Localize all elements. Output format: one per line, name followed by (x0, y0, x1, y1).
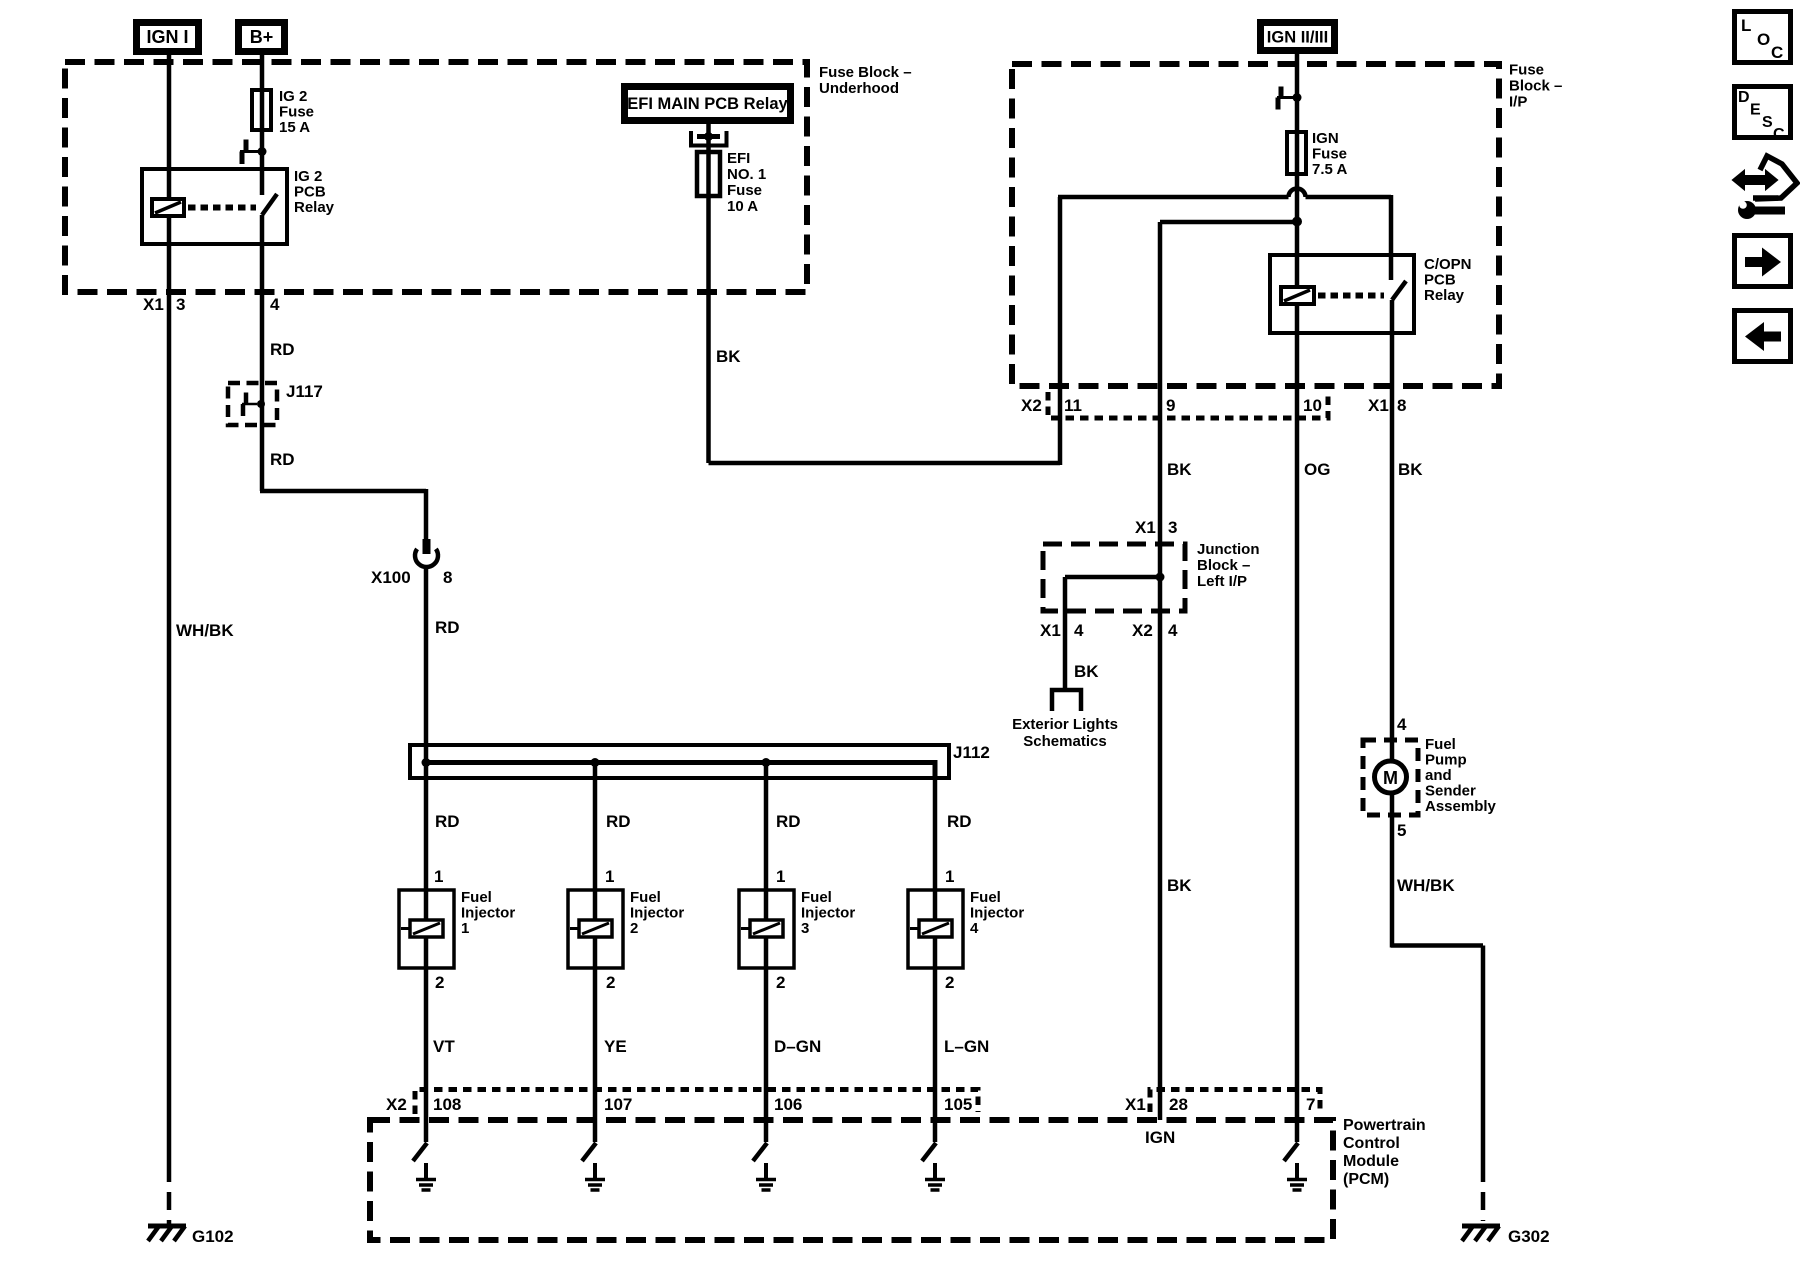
injector 3 box (739, 890, 794, 968)
svg-text:5: 5 (1397, 821, 1406, 840)
svg-text:X2: X2 (386, 1095, 407, 1114)
svg-text:PCB: PCB (1424, 272, 1456, 289)
svg-text:2: 2 (776, 973, 785, 992)
injector 4 box (908, 890, 963, 968)
svg-text:IGN: IGN (1145, 1128, 1175, 1147)
fuse clip below EFI MAIN PCB Relay (691, 131, 727, 146)
svg-text:WH/BK: WH/BK (176, 621, 234, 640)
connector hook at IGN fuse top (1279, 87, 1284, 99)
svg-text:3: 3 (1168, 518, 1177, 537)
motor M circle (1375, 761, 1407, 793)
svg-text:(PCM): (PCM) (1343, 1171, 1389, 1188)
svg-text:1: 1 (461, 920, 469, 937)
svg-text:X2: X2 (1132, 621, 1153, 640)
svg-text:J117: J117 (286, 382, 323, 401)
svg-text:G102: G102 (192, 1227, 234, 1246)
svg-text:OG: OG (1304, 460, 1330, 479)
svg-text:RD: RD (606, 812, 631, 831)
svg-text:Fuse: Fuse (727, 182, 762, 199)
svg-text:106: 106 (774, 1095, 802, 1114)
svg-text:Fuel: Fuel (801, 889, 832, 906)
svg-text:Fuel: Fuel (1425, 736, 1456, 753)
wire BK horizontal y=463 (709, 461, 1061, 466)
svg-text:Fuel: Fuel (461, 889, 492, 906)
ground pin7 (1287, 1163, 1307, 1190)
node J112 dot 3 (762, 758, 771, 767)
svg-text:IGN I: IGN I (146, 27, 188, 47)
svg-text:4: 4 (270, 295, 280, 314)
svg-text:Schematics: Schematics (1023, 733, 1106, 750)
wire injector2 drop x=595 (593, 762, 598, 1142)
svg-text:3: 3 (176, 295, 185, 314)
wire BK pin9 branch y=222 (1160, 220, 1297, 225)
svg-text:1: 1 (945, 867, 954, 886)
fuse IGN 7.5A (1287, 132, 1306, 174)
relay C/OPN dashed link (1318, 293, 1384, 299)
svg-text:8: 8 (1397, 396, 1406, 415)
svg-text:BK: BK (1167, 876, 1192, 895)
wire pin11 vertical x=1060 (1058, 197, 1063, 465)
node J112 dot 1 (422, 758, 431, 767)
svg-text:Fuel: Fuel (630, 889, 661, 906)
svg-text:Pump: Pump (1425, 752, 1467, 769)
svg-text:D: D (1738, 89, 1750, 106)
svg-text:Relay: Relay (294, 199, 335, 216)
svg-text:Fuse: Fuse (1509, 62, 1544, 79)
svg-text:1: 1 (605, 867, 614, 886)
svg-text:G302: G302 (1508, 1227, 1550, 1246)
icon back arrow box (1735, 311, 1791, 362)
svg-text:4: 4 (970, 920, 979, 937)
splice J117 dashed box (228, 383, 277, 425)
svg-text:C/OPN: C/OPN (1424, 256, 1472, 273)
relay C/OPN coil (1281, 287, 1314, 304)
wire BK pin9 vertical x=1160 (1158, 222, 1163, 1120)
svg-text:105: 105 (944, 1095, 972, 1114)
injector 1 box (399, 890, 454, 968)
svg-text:and: and (1425, 767, 1452, 784)
svg-text:2: 2 (945, 973, 954, 992)
injector 2 box (568, 890, 623, 968)
svg-text:108: 108 (433, 1095, 461, 1114)
svg-text:RD: RD (435, 812, 460, 831)
svg-text:1: 1 (776, 867, 785, 886)
svg-text:BK: BK (716, 347, 741, 366)
wire J112 bus internal bar (424, 760, 935, 765)
icon LOC box (1735, 12, 1791, 63)
svg-text:BK: BK (1398, 460, 1423, 479)
wire dashed segment to G302 (1481, 1164, 1486, 1221)
wire injector3 drop x=766 (764, 762, 769, 1142)
svg-text:7: 7 (1306, 1095, 1315, 1114)
svg-text:Underhood: Underhood (819, 80, 899, 97)
ground injector3 (756, 1163, 776, 1190)
svg-text:IG 2: IG 2 (294, 168, 322, 185)
ground injector1 (416, 1163, 436, 1190)
svg-text:Block –: Block – (1197, 557, 1250, 574)
connector X100 male pin (423, 539, 431, 554)
svg-text:3: 3 (801, 920, 809, 937)
icon jump arrows with wrench (1733, 156, 1797, 219)
node IGN fuse terminal dot (1293, 93, 1302, 102)
svg-text:Injector: Injector (970, 905, 1024, 922)
svg-text:Fuse: Fuse (279, 104, 314, 121)
ground G102 (148, 1226, 186, 1241)
svg-text:RD: RD (270, 450, 295, 469)
svg-text:PCB: PCB (294, 184, 326, 201)
svg-text:BK: BK (1167, 460, 1192, 479)
svg-text:YE: YE (604, 1037, 627, 1056)
svg-text:Block –: Block – (1509, 78, 1562, 95)
wire IGN I feed (WH/BK) x=169 (167, 55, 172, 1164)
ground G302 (1462, 1226, 1500, 1241)
svg-text:RD: RD (776, 812, 801, 831)
fuse IG 2 15A (252, 90, 271, 130)
svg-text:Left I/P: Left I/P (1197, 573, 1247, 590)
svg-text:28: 28 (1169, 1095, 1188, 1114)
splice J117 hook (244, 393, 249, 405)
node junction block dot (1156, 573, 1165, 582)
ground injector2 (585, 1163, 605, 1190)
svg-text:Sender: Sender (1425, 783, 1476, 800)
svg-text:C: C (1771, 43, 1783, 62)
wire PCM pin7 internal x=1297 (1295, 1120, 1300, 1142)
icon DESC box (1735, 87, 1791, 144)
power tag B+ (239, 23, 285, 52)
transistor switch pin7 (1284, 1143, 1298, 1161)
wire relay switch feed x=1391 (1391, 195, 1392, 948)
svg-text:9: 9 (1166, 396, 1175, 415)
wire junction block internal y=577 (1065, 575, 1160, 580)
junction block dashed box (1043, 544, 1185, 611)
PCM dashed box (370, 1120, 1333, 1240)
svg-text:B+: B+ (250, 27, 274, 47)
svg-text:Injector: Injector (630, 905, 684, 922)
svg-text:Relay: Relay (1424, 287, 1465, 304)
svg-text:8: 8 (443, 568, 452, 587)
svg-text:Powertrain: Powertrain (1343, 1117, 1426, 1134)
svg-text:NO. 1: NO. 1 (727, 166, 766, 183)
svg-text:RD: RD (947, 812, 972, 831)
node B+ fuse terminal dot (258, 147, 267, 156)
svg-text:4: 4 (1168, 621, 1178, 640)
icon forward arrow box (1735, 236, 1791, 287)
wire IGN I dashed segment to G102 (167, 1164, 172, 1224)
svg-text:X2: X2 (1021, 396, 1042, 415)
svg-text:L: L (1741, 16, 1751, 35)
connector hook at IG 2 fuse bottom (244, 140, 249, 153)
svg-text:I/P: I/P (1509, 94, 1527, 111)
svg-text:L–GN: L–GN (944, 1037, 989, 1056)
svg-text:RD: RD (435, 618, 460, 637)
svg-text:Junction: Junction (1197, 541, 1260, 558)
relay IG2 coil (152, 199, 184, 216)
power tag IGN I (137, 23, 199, 52)
svg-text:X1: X1 (143, 295, 164, 314)
svg-text:2: 2 (435, 973, 444, 992)
svg-text:Fuse: Fuse (1312, 146, 1347, 163)
svg-text:2: 2 (606, 973, 615, 992)
wire EFI BK x=708.5 (706, 124, 711, 463)
svg-text:O: O (1757, 30, 1770, 49)
fuse EFI NO.1 10A (697, 152, 720, 196)
svg-text:VT: VT (433, 1037, 455, 1056)
relay C/OPN box (1270, 255, 1414, 333)
exterior lights bracket (1052, 690, 1081, 711)
node BK branch dot (1292, 217, 1302, 227)
svg-text:IG 2: IG 2 (279, 88, 307, 105)
connector X100 female cup (415, 549, 438, 567)
wire WH/BK pump to G302 (1391, 946, 1483, 1165)
bus J112 box (410, 745, 949, 778)
fuse block I/P dashed box (1012, 64, 1499, 386)
svg-text:Module: Module (1343, 1153, 1399, 1170)
svg-text:X1: X1 (1040, 621, 1061, 640)
svg-text:M: M (1383, 768, 1398, 788)
svg-text:E: E (1750, 102, 1761, 119)
wire IGN II/III x=1297 (1295, 54, 1300, 1120)
svg-text:X1: X1 (1125, 1095, 1146, 1114)
svg-text:IGN: IGN (1312, 130, 1339, 147)
wire injector4 drop x=935 (933, 760, 938, 778)
component tag EFI MAIN PCB Relay (625, 87, 791, 121)
svg-text:107: 107 (604, 1095, 632, 1114)
svg-text:S: S (1762, 114, 1773, 131)
svg-text:Injector: Injector (461, 905, 515, 922)
svg-text:D–GN: D–GN (774, 1037, 821, 1056)
wire RD horizontal turn to X100 (260, 489, 426, 540)
svg-text:J112: J112 (953, 743, 990, 762)
pin bracket PCM X1 (1150, 1090, 1320, 1113)
node J117 dot (257, 400, 265, 408)
svg-text:15 A: 15 A (279, 119, 310, 136)
fuse block underhood dashed box (65, 62, 807, 292)
svg-text:Fuel: Fuel (970, 889, 1001, 906)
wire horizontal y=197 with hop over x=1297 (1058, 189, 1391, 198)
transistor switch injector2 (582, 1143, 596, 1161)
svg-text:X1: X1 (1135, 518, 1156, 537)
transistor switch injector3 (753, 1143, 767, 1161)
svg-text:RD: RD (270, 340, 295, 359)
svg-text:4: 4 (1074, 621, 1084, 640)
svg-text:Exterior Lights: Exterior Lights (1012, 716, 1118, 733)
fuel pump dashed box (1363, 740, 1418, 815)
relay IG2 box (142, 169, 287, 244)
svg-text:Control: Control (1343, 1135, 1400, 1152)
relay IG2 switch blade (262, 194, 277, 215)
svg-text:EFI: EFI (727, 150, 750, 167)
svg-text:7.5 A: 7.5 A (1312, 161, 1347, 178)
svg-text:Injector: Injector (801, 905, 855, 922)
svg-text:IGN II/III: IGN II/III (1267, 29, 1328, 47)
svg-text:BK: BK (1074, 662, 1099, 681)
relay IG2 dashed link (188, 205, 256, 211)
svg-text:Fuse Block –: Fuse Block – (819, 64, 912, 81)
ground injector4 (925, 1163, 945, 1190)
svg-text:Assembly: Assembly (1425, 798, 1497, 815)
svg-text:10 A: 10 A (727, 198, 758, 215)
svg-text:4: 4 (1397, 715, 1407, 734)
wire RD below X100 to J112 and injector1 (424, 566, 429, 1142)
svg-text:11: 11 (1064, 396, 1082, 415)
transistor switch injector1 (413, 1143, 427, 1161)
svg-text:1: 1 (434, 867, 443, 886)
svg-text:2: 2 (630, 920, 638, 937)
relay C/OPN switch blade (1392, 281, 1406, 300)
node J112 dot 2 (591, 758, 600, 767)
svg-text:EFI MAIN PCB Relay: EFI MAIN PCB Relay (627, 95, 788, 113)
svg-text:WH/BK: WH/BK (1397, 876, 1455, 895)
power tag IGN II/III (1261, 23, 1335, 51)
pin bracket PCM X2 (415, 1090, 978, 1115)
svg-text:10: 10 (1303, 396, 1322, 415)
wire B+ / RD x=262 (260, 55, 265, 491)
svg-text:X1: X1 (1368, 396, 1389, 415)
transistor switch injector4 (922, 1143, 936, 1161)
wire to exterior lights x=1065 (1063, 577, 1068, 690)
svg-text:X100: X100 (371, 568, 411, 587)
svg-text:C: C (1773, 126, 1785, 143)
pin bracket I/P X2 (1048, 392, 1328, 418)
